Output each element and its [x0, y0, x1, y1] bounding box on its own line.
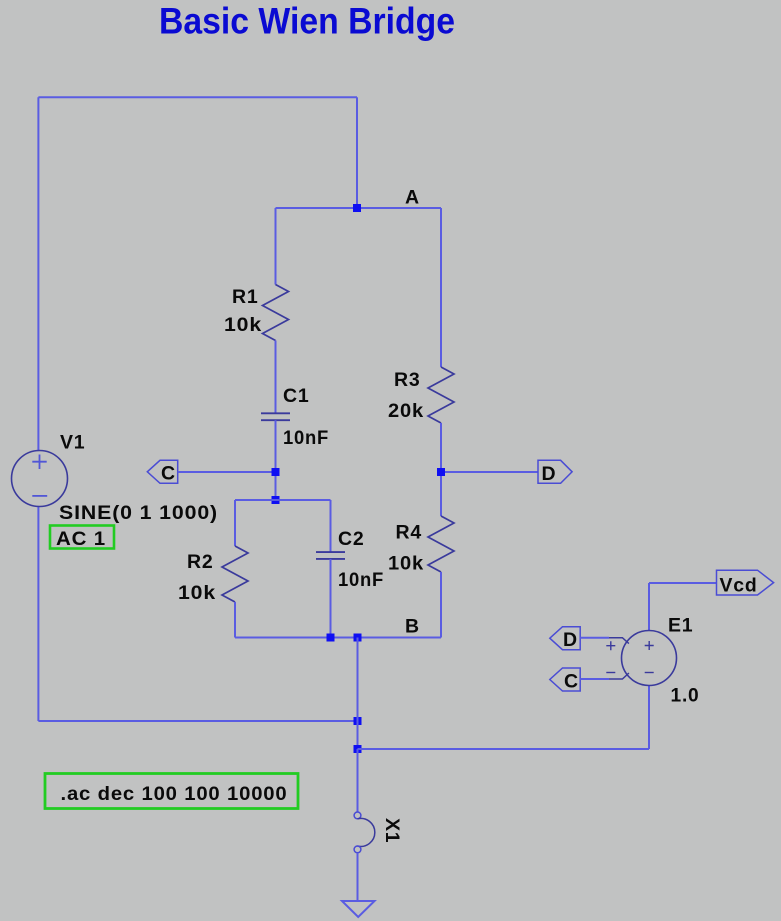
junction node D — [437, 468, 445, 476]
resistor R1 — [263, 285, 289, 341]
E1 control plus sign — [606, 641, 615, 650]
port tag D (left, E1 control +) — [550, 627, 580, 650]
wire from port C to node C — [178, 471, 276, 473]
svg-text:C: C — [564, 671, 579, 693]
wire R1 bottom to C1 top — [275, 341, 277, 414]
spice directive green box — [45, 774, 298, 809]
wire parallel top rail — [235, 499, 331, 501]
wire C2 top pin — [330, 500, 332, 552]
wire C1 bottom through node C junction down to parallel rail — [275, 420, 277, 500]
wire left vertical upper (V1 top pin) — [37, 97, 39, 451]
svg-text:C2: C2 — [338, 528, 365, 550]
svg-text:R4: R4 — [396, 522, 423, 544]
wire vertical node B down to E1 rail — [357, 638, 359, 750]
E1 control minus sign — [606, 672, 615, 674]
svg-text:R3: R3 — [394, 369, 421, 391]
port tag C (left, E1 control -) — [550, 668, 580, 691]
junction E1 bottom rail — [354, 745, 362, 753]
svg-text:R1: R1 — [232, 286, 259, 308]
junction node B center — [354, 634, 362, 642]
wire C2 bottom pin — [330, 559, 332, 638]
wire E1 bottom rail horizontal — [358, 748, 650, 750]
svg-text:Basic Wien Bridge: Basic Wien Bridge — [159, 1, 455, 42]
svg-text:B: B — [405, 616, 420, 638]
svg-text:E1: E1 — [668, 615, 693, 637]
svg-text:10k: 10k — [224, 314, 262, 336]
resistor R2 — [222, 546, 248, 602]
port tag Vcd (right) — [717, 570, 774, 595]
wire port C to E1 minus pin — [580, 678, 609, 680]
svg-text:A: A — [405, 187, 420, 209]
V1 plus sign — [32, 455, 46, 470]
svg-text:.ac dec 100 100 10000: .ac dec 100 100 10000 — [61, 783, 288, 805]
port tag D (right, at node D) — [538, 460, 572, 483]
svg-text:X1: X1 — [381, 818, 403, 843]
V1 AC 1 attribute green box — [50, 526, 114, 549]
svg-text:10nF: 10nF — [338, 569, 384, 591]
connector X1 top circle — [354, 812, 361, 819]
svg-text:V1: V1 — [60, 432, 85, 454]
wire bottom left horizontal — [38, 720, 357, 722]
junction node C — [272, 468, 280, 476]
resistor R3 — [428, 367, 454, 423]
voltage source V1 circle — [12, 451, 68, 507]
junction C2 bottom at node B — [327, 634, 335, 642]
E1 control plus pin line — [609, 638, 629, 644]
svg-text:D: D — [542, 463, 557, 485]
wire R2 bottom pin — [234, 602, 236, 638]
wire R1 top pin — [275, 208, 277, 285]
capacitor C2 — [316, 552, 345, 559]
svg-text:AC 1: AC 1 — [56, 528, 106, 550]
wire node B horizontal — [235, 637, 441, 639]
wire E1 bottom pin — [648, 686, 650, 750]
connector X1 arc — [358, 818, 375, 846]
V1 minus sign — [32, 495, 47, 497]
wire E1 top pin — [648, 583, 650, 631]
svg-text:10nF: 10nF — [283, 427, 329, 449]
junction node A — [353, 204, 361, 212]
svg-text:10k: 10k — [178, 582, 216, 604]
wire R4 bottom pin — [440, 572, 442, 638]
wire node D to port D — [441, 471, 538, 473]
wire top horizontal from V1 to node A column — [38, 96, 357, 98]
wire R2 top pin — [234, 500, 236, 546]
E1 control minus pin line — [609, 673, 629, 679]
wire X1 bottom to ground — [357, 853, 359, 901]
svg-text:10k: 10k — [388, 553, 424, 575]
svg-text:R2: R2 — [187, 551, 214, 573]
svg-text:1.0: 1.0 — [671, 685, 700, 707]
svg-text:D: D — [563, 629, 578, 651]
svg-text:C: C — [161, 463, 176, 485]
connector X1 bottom circle — [354, 846, 361, 853]
resistor R4 — [428, 516, 454, 572]
wire left vertical lower (V1 bottom pin) — [37, 507, 39, 722]
wire E1 top to port Vcd — [649, 582, 717, 584]
wire vertical down to node A — [356, 97, 358, 208]
junction parallel top rail — [272, 496, 280, 504]
svg-text:SINE(0 1 1000): SINE(0 1 1000) — [59, 502, 218, 524]
svg-text:Vcd: Vcd — [720, 575, 758, 597]
wire port D to E1 plus pin — [580, 637, 609, 639]
port tag C (left, at node C) — [147, 460, 177, 483]
wire right branch from node A down to R3 — [440, 208, 442, 367]
svg-text:C1: C1 — [283, 385, 310, 407]
dependent source E1 circle — [622, 631, 677, 686]
E1 inner minus sign — [645, 672, 654, 674]
capacitor C1 — [261, 413, 290, 420]
junction bottom-left rail — [354, 717, 362, 725]
svg-text:20k: 20k — [388, 400, 424, 422]
E1 inner plus sign — [645, 641, 654, 650]
wire node A horizontal — [276, 207, 442, 209]
wire R3 bottom to node D junction to R4 top — [440, 423, 442, 516]
ground symbol — [342, 901, 375, 917]
wire X1 top pin — [357, 749, 359, 812]
